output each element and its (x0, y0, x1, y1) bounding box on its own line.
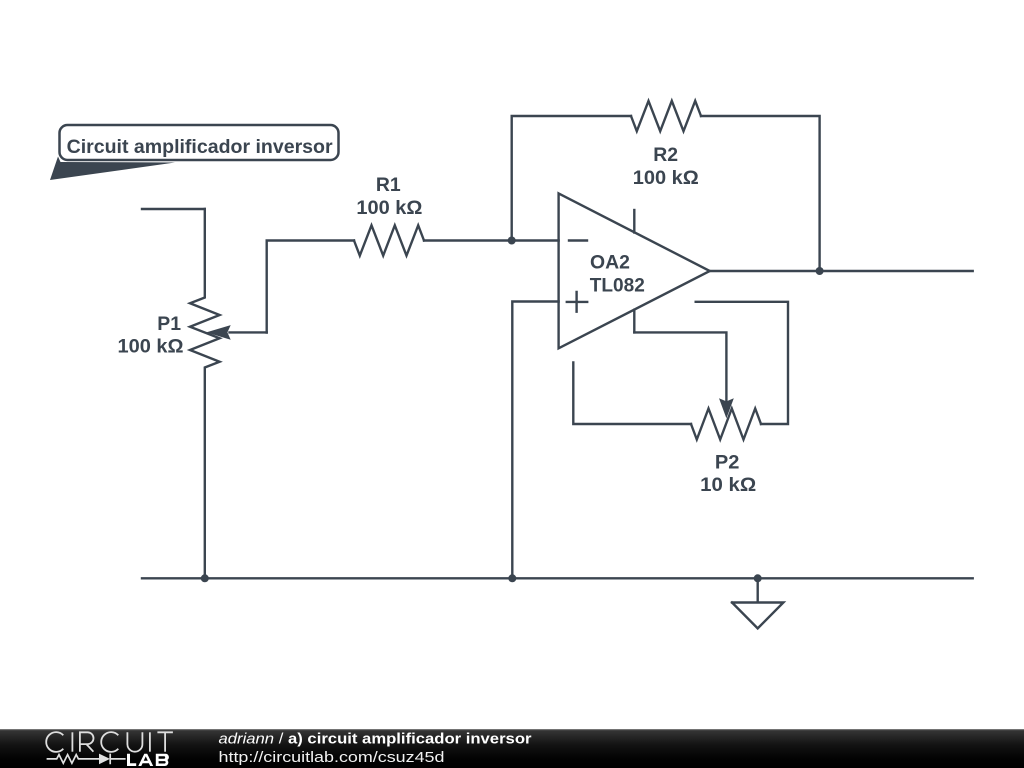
wire R1 to inverting input (424, 239, 559, 241)
svg-text:adriann / a) circuit amplifica: adriann / a) circuit amplificador invers… (219, 730, 532, 747)
potentiometer P2 (691, 409, 761, 440)
svg-text:TL082: TL082 (590, 274, 645, 296)
footer bar (0, 729, 1024, 768)
wire P2 left terminal (573, 363, 691, 425)
wire non-inverting input (512, 302, 558, 579)
wire input top-left (142, 208, 205, 210)
node junction non-inverting rail (508, 574, 516, 582)
svg-text:R2: R2 (653, 144, 678, 166)
svg-text:100 kΩ: 100 kΩ (633, 167, 699, 189)
wire P1 wiper to R1 (267, 241, 354, 333)
annotation bubble tail (50, 157, 175, 181)
op-amp V+ pin stub (633, 210, 635, 233)
svg-text:10 kΩ: 10 kΩ (700, 474, 756, 496)
wire P2 right terminal (696, 302, 788, 424)
potentiometer P1 (190, 209, 220, 578)
svg-text:Circuit amplificador inversor: Circuit amplificador inversor (67, 136, 333, 158)
wire V- to P2 wiper (634, 332, 726, 401)
svg-text:R1: R1 (376, 174, 401, 196)
resistor R1 (354, 225, 424, 255)
CircuitLab logo LAB (127, 754, 169, 766)
wire output (710, 270, 973, 272)
svg-text:100 kΩ: 100 kΩ (118, 335, 184, 357)
wire ground rail (142, 577, 973, 579)
svg-text:100 kΩ: 100 kΩ (356, 197, 422, 219)
op-amp minus symbol (569, 239, 587, 241)
annotation bubble box (60, 125, 339, 160)
svg-text:http://circuitlab.com/csuz45d: http://circuitlab.com/csuz45d (219, 749, 445, 766)
resistor R2 (631, 101, 701, 131)
node junction P1 bottom (201, 574, 209, 582)
svg-text:P2: P2 (715, 452, 740, 474)
potentiometer P1 wiper arrow (206, 325, 266, 340)
op-amp OA2 (559, 193, 710, 348)
ground symbol (732, 578, 783, 628)
svg-text:P1: P1 (157, 313, 181, 335)
node junction at output (816, 267, 824, 275)
P2 wiper arrow head (719, 398, 734, 418)
op-amp plus symbol (567, 292, 587, 312)
svg-text:OA2: OA2 (590, 251, 630, 273)
CircuitLab logo CIRCUIT (46, 732, 173, 752)
wire feedback right vertical (701, 116, 820, 271)
CircuitLab logo squiggle (47, 754, 126, 765)
op-amp V- pin stub (633, 310, 635, 333)
node junction at inverting input (508, 237, 516, 245)
wire feedback left vertical (512, 116, 631, 241)
node junction ground (754, 574, 762, 582)
